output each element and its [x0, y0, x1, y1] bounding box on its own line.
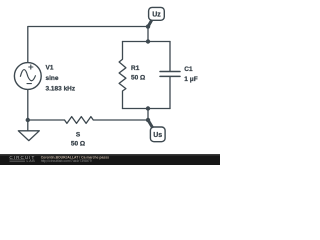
svg-text:Uz: Uz	[152, 12, 161, 19]
svg-text:http;//circuitlab.com/7uk4r739: http;//circuitlab.com/7uk4r7398t79	[41, 159, 92, 163]
svg-text:C1: C1	[184, 66, 193, 73]
svg-text:S: S	[76, 132, 81, 139]
svg-text:R1: R1	[131, 65, 140, 72]
svg-text:1 μF: 1 μF	[184, 76, 197, 83]
svg-text:50 Ω: 50 Ω	[131, 75, 145, 82]
svg-text:Us: Us	[153, 132, 162, 139]
svg-text:LAB: LAB	[27, 159, 36, 163]
svg-text:50 Ω: 50 Ω	[71, 141, 85, 148]
svg-text:sine: sine	[46, 75, 59, 82]
svg-text:3.183 kHz: 3.183 kHz	[46, 86, 76, 93]
svg-text:V1: V1	[46, 65, 54, 72]
